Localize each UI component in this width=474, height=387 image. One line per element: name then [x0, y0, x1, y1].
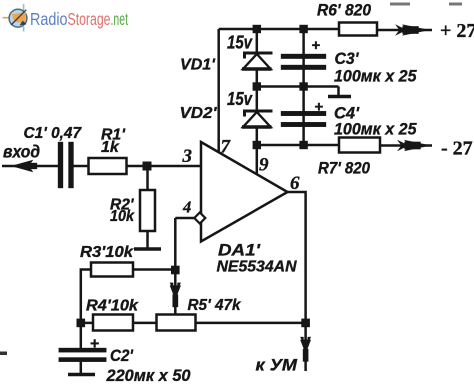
- svg-text:R4'10k: R4'10k: [86, 298, 139, 315]
- wire pin 4 vertical feedback: [174, 218, 177, 315]
- svg-text:C1' 0,47: C1' 0,47: [24, 125, 83, 142]
- resistor R1: [89, 158, 127, 174]
- wire junction to R2: [146, 166, 149, 190]
- zener column wire: [256, 29, 259, 174]
- node junction R1/R2: [143, 162, 152, 171]
- arrow -27: [398, 140, 431, 151]
- capacitor column wire: [302, 29, 305, 145]
- capacitor C1: [58, 142, 74, 188]
- wire R5 to output node: [196, 322, 306, 325]
- node mid rail / zener: [253, 82, 261, 90]
- wire R1 to op-amp pin 3: [127, 165, 202, 168]
- node top rail / zener: [253, 25, 261, 33]
- svg-text:C3': C3': [335, 49, 360, 68]
- resistor R5: [157, 315, 196, 331]
- svg-text:3: 3: [182, 146, 193, 167]
- wire R4 left: [78, 322, 93, 325]
- top rail: [219, 28, 339, 31]
- zener VD2: [242, 111, 273, 127]
- svg-text:100мк x 25: 100мк x 25: [334, 68, 417, 86]
- node bottom rail / zener: [253, 141, 261, 149]
- wire C1 to R1: [74, 165, 89, 168]
- svg-text:100мк x 25: 100мк x 25: [334, 121, 417, 139]
- op-amp DA1 triangle: [201, 142, 288, 242]
- input terminal arrow: [12, 160, 38, 172]
- capacitor C3: [281, 54, 326, 70]
- resistor R2: [140, 190, 155, 231]
- svg-text:15v: 15v: [227, 33, 253, 53]
- mid rail ground stub: [337, 87, 340, 97]
- svg-text:1k: 1k: [101, 139, 120, 156]
- svg-text:к УМ: к УМ: [256, 356, 298, 375]
- svg-text:DA1': DA1': [218, 242, 261, 260]
- resistor R4: [93, 315, 133, 331]
- svg-text:R3'10k: R3'10k: [80, 244, 134, 261]
- ground below C2: [68, 373, 95, 376]
- logo crosshair: [3, 4, 24, 32]
- junction R3 / feedback: [171, 266, 180, 275]
- svg-text:- 27: - 27: [441, 138, 473, 160]
- svg-text:9: 9: [259, 155, 269, 176]
- pin 4 inverting input circle: [194, 212, 205, 223]
- wire arrow tail к УМ: [304, 358, 307, 371]
- scan speck left edge: [0, 352, 7, 356]
- scan speck top right 1: [390, 3, 410, 6]
- svg-text:VD2': VD2': [180, 105, 218, 122]
- svg-text:R5' 47k: R5' 47k: [188, 297, 242, 314]
- svg-text:Radio: Radio: [30, 9, 68, 29]
- wire R4 to R5: [133, 322, 157, 325]
- wire R6 to +27 arrow: [377, 29, 432, 32]
- svg-text:220мк x 50: 220мк x 50: [106, 367, 192, 385]
- wire R7 to -27 arrow: [380, 144, 432, 147]
- bottom rail: [257, 144, 339, 147]
- wire pin 4 horizontal: [175, 217, 195, 220]
- node top rail / C3: [299, 25, 307, 33]
- svg-text:R6' 820: R6' 820: [317, 2, 372, 20]
- node R4 / C2: [77, 319, 86, 328]
- svg-text:10k: 10k: [110, 208, 135, 225]
- node mid rail / caps: [299, 82, 307, 90]
- wire R3 right to feedback junction: [133, 268, 175, 271]
- zener VD1: [242, 53, 273, 69]
- wire pin7 to top rail: [217, 29, 220, 153]
- arrow к УМ: [300, 337, 310, 362]
- svg-text:R7' 820: R7' 820: [318, 160, 371, 178]
- node output / R5: [301, 319, 310, 328]
- down arrow on feedback wire: [170, 283, 181, 307]
- svg-text:7: 7: [221, 137, 232, 158]
- svg-text:+: +: [315, 99, 324, 116]
- svg-text:+ 27: + 27: [440, 20, 474, 42]
- resistor R3: [91, 263, 133, 277]
- resistor R7: [339, 138, 380, 153]
- svg-text:15v: 15v: [227, 89, 253, 109]
- svg-text:вход: вход: [3, 142, 40, 162]
- wire pin 6 output: [288, 192, 306, 340]
- logo circle icon: [9, 9, 27, 27]
- logo text RadioStorage.net: [30, 9, 128, 29]
- ground mid rail: [328, 95, 351, 98]
- svg-text:.net: .net: [111, 9, 129, 29]
- wire C2 to ground: [80, 362, 83, 375]
- capacitor C2: [59, 348, 107, 362]
- resistor R6: [339, 23, 377, 36]
- svg-text:4: 4: [182, 198, 191, 217]
- wire C2 top: [80, 323, 83, 348]
- svg-text:NE5534AN: NE5534AN: [217, 259, 297, 276]
- scan speck top right 2: [449, 3, 462, 6]
- wire R2 to ground: [146, 231, 149, 249]
- arrow +27: [396, 25, 430, 36]
- node bottom rail / C4: [299, 141, 307, 149]
- ground below R2: [134, 247, 161, 250]
- svg-text:+: +: [90, 336, 99, 353]
- svg-text:+: +: [312, 37, 321, 54]
- svg-text:Storage: Storage: [68, 9, 111, 29]
- mid rail: [257, 85, 339, 88]
- svg-text:C2': C2': [110, 346, 134, 365]
- svg-text:VD1': VD1': [180, 57, 216, 74]
- wire input to C1: [2, 165, 58, 168]
- capacitor C4: [281, 111, 326, 127]
- wire R3 left: [81, 270, 91, 323]
